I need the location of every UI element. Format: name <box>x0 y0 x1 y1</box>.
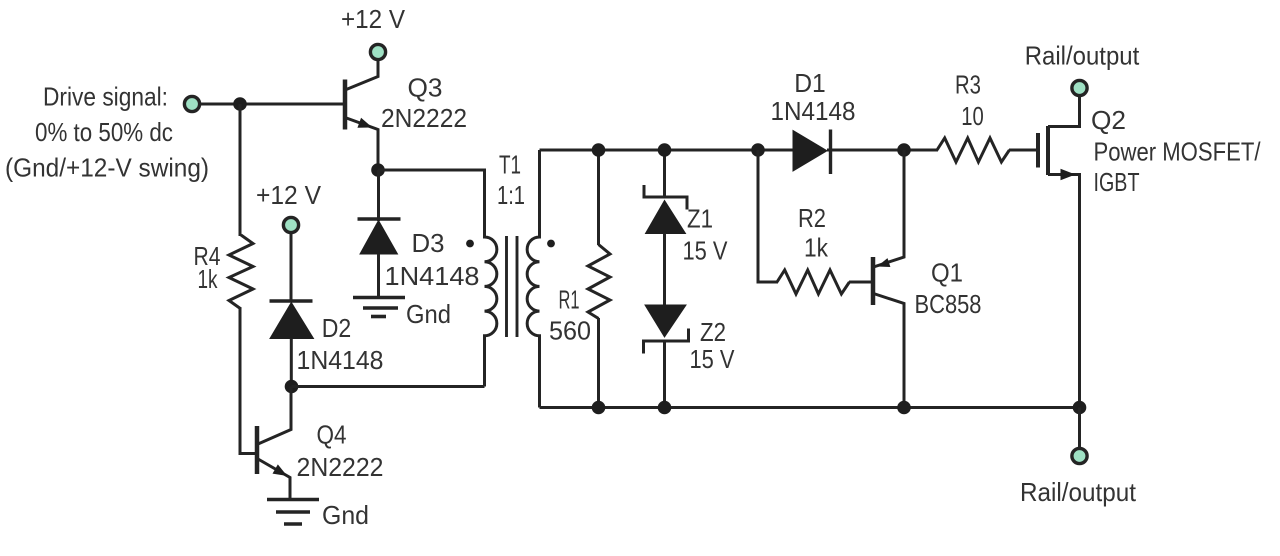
svg-text:2N2222: 2N2222 <box>297 452 384 482</box>
arrow: Q4 emitter <box>273 465 286 475</box>
label +12 V top <box>341 4 406 34</box>
node D (D1 anode junction) <box>751 143 765 157</box>
svg-text:R2: R2 <box>798 203 826 233</box>
svg-text:1k: 1k <box>198 264 219 294</box>
node F (output junction) <box>1073 401 1087 415</box>
wire: Z2 bottom stub <box>663 340 666 408</box>
svg-text:Q2: Q2 <box>1091 105 1126 135</box>
transformer T1 secondary winding <box>527 150 539 408</box>
svg-text:1N4148: 1N4148 <box>297 345 384 375</box>
svg-text:1N4148: 1N4148 <box>771 96 856 126</box>
label R2 1k <box>798 203 829 263</box>
node: Z2 bottom <box>658 401 672 415</box>
node: R1 bottom <box>592 401 606 415</box>
wire: node D down to R2 <box>758 150 778 282</box>
label D3 1N4148 <box>385 228 480 291</box>
wire: +12 V terminal to D2 <box>290 233 293 301</box>
svg-text:T1: T1 <box>499 150 521 180</box>
svg-text:R3: R3 <box>955 70 981 100</box>
svg-text:0% to 50% dc: 0% to 50% dc <box>35 117 173 147</box>
label Gnd (D3) <box>406 299 451 329</box>
svg-text:+12 V: +12 V <box>256 180 322 210</box>
svg-text:Z1: Z1 <box>687 204 713 234</box>
label R1 560 <box>549 285 591 346</box>
label D1 1N4148 <box>771 68 856 126</box>
label Gnd (Q4) <box>322 500 369 530</box>
svg-text:1N4148: 1N4148 <box>385 261 480 291</box>
label Rail/output bottom <box>1020 477 1137 507</box>
label +12 V (D2) <box>256 180 322 210</box>
svg-text:15 V: 15 V <box>690 344 736 374</box>
resistor R4 <box>229 235 253 309</box>
svg-text:Q3: Q3 <box>408 73 443 103</box>
label Q4 2N2222 <box>297 420 384 483</box>
svg-text:Q1: Q1 <box>931 258 963 288</box>
transformer T1 primary winding <box>485 170 497 387</box>
node E (D1 cathode junction) <box>897 143 911 157</box>
svg-text:10: 10 <box>961 101 984 131</box>
terminal: Rail/output bottom <box>1072 448 1087 463</box>
transistor Q1 <box>873 150 904 408</box>
wire: node B to transformer primary <box>378 170 485 237</box>
transformer T1 phase dot (secondary) <box>547 240 555 248</box>
wire: top rail (D1 cathode to R3) <box>827 149 938 152</box>
wire: node C to transformer primary bottom <box>292 385 485 388</box>
label Z1 15 V <box>683 204 729 266</box>
label T1 1:1 <box>497 150 525 211</box>
ground (Q4) <box>267 500 319 525</box>
zener Z1 <box>644 185 687 234</box>
svg-text:R1: R1 <box>559 285 580 315</box>
label Q2 <box>1091 105 1126 135</box>
svg-text:(Gnd/+12-V swing): (Gnd/+12-V swing) <box>5 153 209 183</box>
node: Q1 collector to rail <box>897 401 911 415</box>
svg-text:+12 V: +12 V <box>341 4 406 34</box>
terminal: +12 V (D2 anode) <box>283 217 298 232</box>
svg-text:560: 560 <box>549 316 591 346</box>
mosfet Q2 <box>1038 95 1080 408</box>
node B (Q3 emitter junction) <box>371 163 385 177</box>
wire: Z1 top stub <box>663 150 666 198</box>
label Power MOSFET/IGBT <box>1094 136 1262 197</box>
terminal: +12 V (Q3 collector) <box>370 44 385 59</box>
node: Z1 top <box>658 143 672 157</box>
label D2 1N4148 <box>297 313 384 375</box>
svg-text:IGBT: IGBT <box>1094 167 1140 197</box>
svg-text:Gnd: Gnd <box>322 500 369 530</box>
svg-text:1:1: 1:1 <box>497 180 525 210</box>
svg-text:15 V: 15 V <box>683 236 729 266</box>
wire: R3 to Q2 gate <box>1009 149 1036 152</box>
label Q3 2N2222 <box>381 73 467 134</box>
svg-text:D3: D3 <box>412 228 445 258</box>
svg-text:Gnd: Gnd <box>406 299 451 329</box>
transistor Q3 <box>345 61 378 171</box>
label Rail/output top <box>1025 41 1140 71</box>
wire: input to Q3 base <box>200 103 343 106</box>
resistor R1 <box>588 245 610 319</box>
node C (D2/Q4/primary junction) <box>285 380 299 394</box>
wire: top rail (secondary to D1 anode) <box>540 149 794 152</box>
terminal: Rail/output top <box>1072 80 1087 95</box>
transformer T1 core <box>507 236 518 337</box>
wire: R2 to Q1 base <box>849 281 871 284</box>
wire: output stub down <box>1078 408 1081 449</box>
wire: R1 top stub <box>597 150 600 245</box>
wire: Z1 to Z2 <box>663 234 666 306</box>
wire: node A down to R4 <box>239 104 242 236</box>
svg-text:BC858: BC858 <box>915 289 982 319</box>
transistor Q4 <box>257 387 291 499</box>
node A (input junction) <box>233 97 247 111</box>
wire: R1 bottom stub <box>597 318 600 408</box>
svg-text:Q4: Q4 <box>317 420 347 450</box>
svg-text:2N2222: 2N2222 <box>381 103 467 133</box>
ground (D3) <box>353 298 405 317</box>
svg-text:1k: 1k <box>804 233 829 263</box>
zener Z2 <box>644 305 689 354</box>
terminal: drive signal input <box>184 96 199 111</box>
arrow: Q2 source <box>1061 170 1074 180</box>
label Q1 BC858 <box>915 258 982 320</box>
transformer T1 phase dot (primary) <box>466 240 474 248</box>
diode D1 <box>793 130 831 175</box>
node: R1 top <box>592 143 606 157</box>
svg-text:Z2: Z2 <box>700 317 726 347</box>
svg-text:D1: D1 <box>794 68 826 98</box>
svg-text:D2: D2 <box>322 313 352 343</box>
svg-text:Rail/output: Rail/output <box>1025 41 1140 71</box>
svg-text:Power MOSFET/: Power MOSFET/ <box>1094 136 1262 166</box>
svg-text:Rail/output: Rail/output <box>1020 477 1137 507</box>
arrow: Q3 emitter <box>358 119 371 128</box>
arrow: Q1 emitter <box>879 259 890 266</box>
diode D3 <box>358 170 401 297</box>
resistor R3 <box>937 138 1009 162</box>
wire: R4 to Q4 base <box>240 308 255 454</box>
label: Drive signal caption <box>5 82 209 183</box>
label Z2 15 V <box>690 317 736 374</box>
resistor R2 <box>777 270 849 294</box>
diode D2 <box>270 301 314 387</box>
label R3 10 <box>955 70 984 132</box>
label R4 1k <box>194 241 221 294</box>
svg-text:Drive signal:: Drive signal: <box>43 82 168 112</box>
wire: bottom rail <box>540 406 1080 409</box>
